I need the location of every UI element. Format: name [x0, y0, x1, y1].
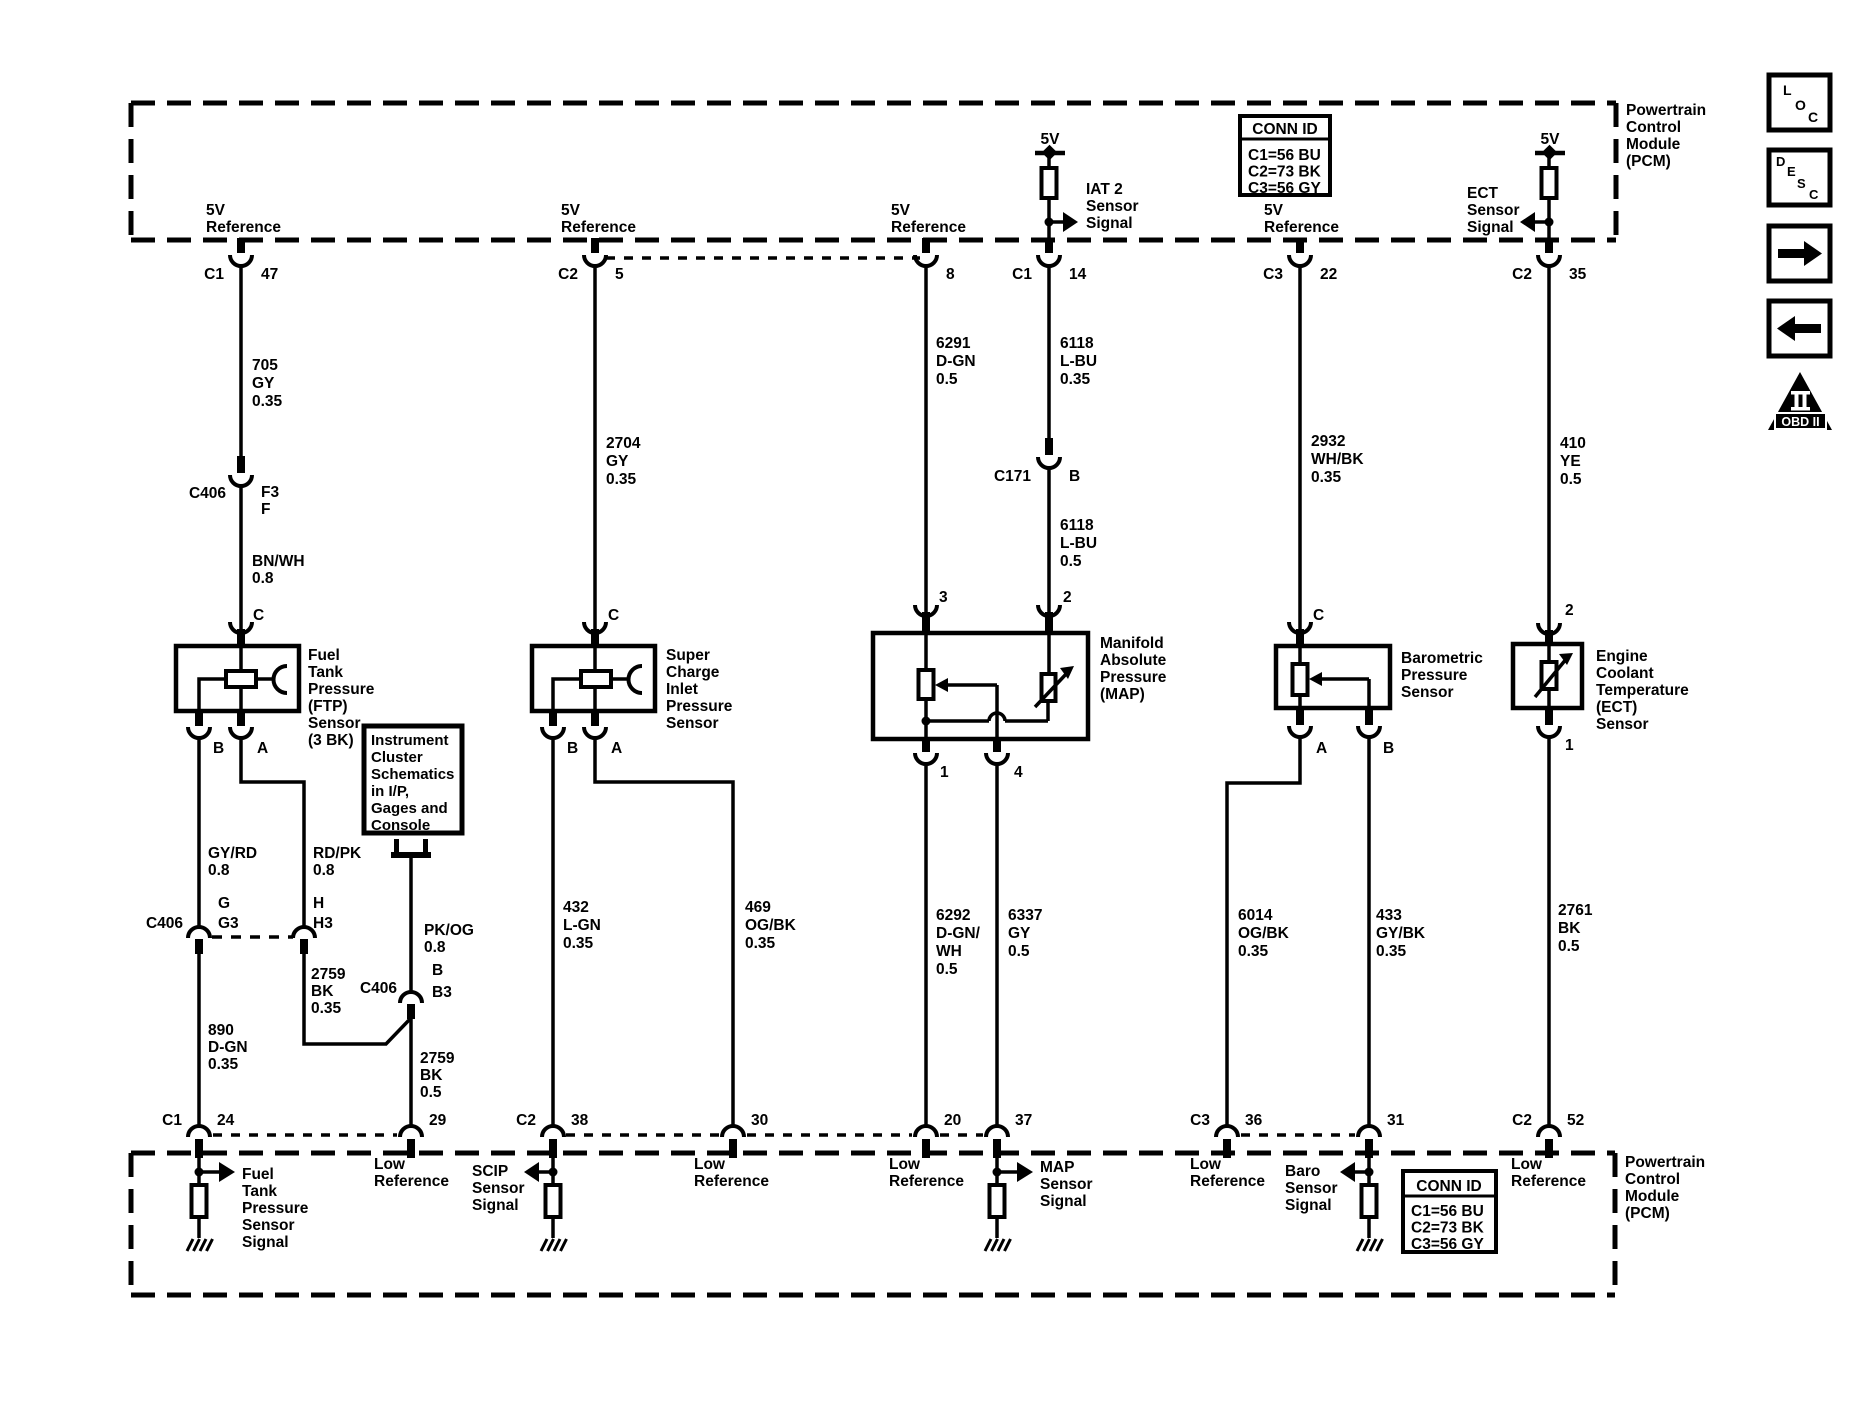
- svg-text:Gages and: Gages and: [371, 800, 448, 817]
- PCM pin C3 36: [1190, 1112, 1262, 1158]
- MAP thermistor: [1035, 633, 1074, 707]
- svg-text:Signal: Signal: [1285, 1197, 1332, 1214]
- svg-text:YE: YE: [1560, 453, 1581, 470]
- PCM pin C1 14: [1012, 238, 1086, 283]
- svg-text:0.35: 0.35: [252, 393, 283, 410]
- icon back arrow box: [1769, 301, 1830, 356]
- svg-text:30: 30: [751, 1112, 768, 1129]
- svg-text:6118: 6118: [1060, 517, 1094, 534]
- svg-text:L-BU: L-BU: [1060, 353, 1097, 370]
- svg-text:E: E: [1787, 164, 1796, 179]
- svg-text:G: G: [218, 895, 230, 912]
- svg-text:31: 31: [1387, 1112, 1405, 1129]
- icon forward arrow box: [1769, 226, 1830, 281]
- icon LOC box: [1769, 75, 1830, 130]
- label RD/PK 0.8: [313, 845, 362, 879]
- wire 6292: [924, 764, 928, 1126]
- svg-text:36: 36: [1245, 1112, 1263, 1129]
- svg-text:OG/BK: OG/BK: [745, 917, 797, 934]
- junction ECT: [1545, 218, 1554, 227]
- PCM label top right: [1626, 102, 1706, 170]
- connector C406 B B3: [360, 962, 452, 1019]
- svg-text:Sensor: Sensor: [472, 1180, 525, 1197]
- resistor pin31: [1362, 1185, 1377, 1217]
- label 6291 D-GN 0.5: [936, 335, 976, 388]
- svg-text:C: C: [1809, 187, 1819, 202]
- svg-text:0.5: 0.5: [936, 371, 958, 388]
- label 5V Reference col3: [891, 202, 966, 236]
- icon OBD II triangle: [1768, 372, 1832, 430]
- MAP wiper arrow: [935, 678, 997, 692]
- svg-text:0.35: 0.35: [745, 935, 776, 952]
- MAP pin4 wire: [995, 685, 999, 739]
- svg-text:2: 2: [1063, 589, 1072, 606]
- Baro pin C: [1289, 607, 1324, 648]
- svg-text:0.35: 0.35: [1311, 469, 1342, 486]
- dashed link 24-29: [213, 1133, 397, 1137]
- svg-text:0.5: 0.5: [420, 1084, 442, 1101]
- MAP junction dot: [922, 717, 931, 726]
- wire resistor to ground pin37: [995, 1217, 999, 1238]
- PCM pin 37: [986, 1112, 1032, 1158]
- svg-text:Sensor: Sensor: [1596, 716, 1649, 733]
- svg-text:705: 705: [252, 357, 278, 374]
- Baro pin A: [1289, 706, 1327, 757]
- connector C406 H H3: [293, 895, 333, 954]
- ECT sensor label: [1596, 648, 1689, 733]
- junction pin37: [993, 1168, 1002, 1177]
- label PK/OG 0.8: [424, 922, 474, 956]
- ECT sensor box: [1513, 644, 1582, 708]
- svg-text:L-BU: L-BU: [1060, 535, 1097, 552]
- svg-text:Low: Low: [1511, 1156, 1543, 1173]
- svg-text:2759: 2759: [311, 966, 346, 983]
- cluster connector hooks: [391, 839, 431, 858]
- svg-text:Reference: Reference: [374, 1173, 449, 1190]
- svg-text:Tank: Tank: [308, 664, 343, 681]
- svg-text:1: 1: [1565, 737, 1574, 754]
- wire resistor to ground pin24: [197, 1217, 201, 1238]
- label 6118 L-BU 0.35: [1060, 335, 1097, 388]
- label Low Reference 52: [1511, 1156, 1586, 1190]
- label 6337 GY 0.5: [1008, 907, 1042, 960]
- wire A to H3: [241, 738, 304, 928]
- PCM bottom dashed box: [131, 1153, 1615, 1295]
- svg-text:IAT 2: IAT 2: [1086, 181, 1123, 198]
- svg-text:0.5: 0.5: [1558, 938, 1580, 955]
- svg-text:C406: C406: [189, 485, 226, 502]
- svg-text:2761: 2761: [1558, 902, 1593, 919]
- label 432 L-GN 0.35: [563, 899, 601, 952]
- svg-text:0.8: 0.8: [313, 862, 335, 879]
- svg-text:Manifold: Manifold: [1100, 635, 1164, 652]
- PCM pin C2 52: [1512, 1112, 1584, 1158]
- Baro internal wires: [1300, 646, 1369, 708]
- svg-text:Low: Low: [1190, 1156, 1222, 1173]
- SC pin A: [584, 709, 622, 757]
- wire into PCM pin38: [551, 1158, 555, 1185]
- svg-text:Powertrain: Powertrain: [1625, 1154, 1705, 1171]
- svg-text:C: C: [253, 607, 264, 624]
- resistor pin24: [192, 1185, 207, 1217]
- svg-text:D: D: [1776, 154, 1785, 169]
- svg-text:OBD II: OBD II: [1781, 415, 1819, 429]
- wire BN/WH to FTP C: [239, 486, 243, 631]
- junction IAT2: [1045, 218, 1054, 227]
- dashed link 20-37: [940, 1133, 983, 1137]
- svg-text:Low: Low: [889, 1156, 921, 1173]
- svg-text:C1: C1: [162, 1112, 182, 1129]
- svg-text:Pressure: Pressure: [666, 698, 733, 715]
- svg-text:B: B: [1383, 740, 1394, 757]
- svg-text:Low: Low: [694, 1156, 726, 1173]
- PCM pin C2 38: [516, 1112, 588, 1158]
- MAP sensor box: [873, 633, 1088, 739]
- svg-text:Reference: Reference: [1264, 219, 1339, 236]
- svg-text:C: C: [1313, 607, 1324, 624]
- label 6292 D-GN/ WH 0.5: [936, 907, 981, 978]
- resistor pin37: [990, 1185, 1005, 1217]
- svg-text:B: B: [567, 740, 578, 757]
- wire 6337: [995, 764, 999, 1126]
- Baro internal resistor: [1293, 664, 1308, 695]
- svg-text:0.35: 0.35: [606, 471, 637, 488]
- SC pin B: [542, 709, 578, 757]
- connector C171 B: [994, 438, 1080, 485]
- label 2759 BK 0.35: [311, 966, 346, 1017]
- label 6118 L-BU 0.5: [1060, 517, 1097, 570]
- svg-text:6014: 6014: [1238, 907, 1273, 924]
- svg-text:35: 35: [1569, 266, 1587, 283]
- svg-text:0.35: 0.35: [311, 1000, 342, 1017]
- svg-text:Pressure: Pressure: [242, 1200, 309, 1217]
- svg-text:H: H: [313, 895, 324, 912]
- junction pin31: [1365, 1168, 1374, 1177]
- svg-text:Sensor: Sensor: [1086, 198, 1139, 215]
- Baro sensor box: [1276, 646, 1390, 708]
- PCM pin C2 35: [1512, 238, 1586, 283]
- svg-text:C406: C406: [146, 915, 183, 932]
- label 410 YE 0.5: [1560, 435, 1586, 488]
- svg-text:BK: BK: [1558, 920, 1581, 937]
- ground pin24: [187, 1239, 213, 1251]
- MAP sensor label: [1100, 635, 1167, 703]
- connector C406 F3: [189, 456, 280, 518]
- icon DESC box: [1769, 150, 1830, 205]
- svg-text:890: 890: [208, 1022, 234, 1039]
- Instrument Cluster box: [364, 726, 462, 834]
- label Low Reference 20: [889, 1156, 964, 1190]
- svg-text:Signal: Signal: [1040, 1193, 1087, 1210]
- dashed link C2-5 to 8: [606, 256, 920, 260]
- 5V supply ECT: [1535, 131, 1565, 168]
- svg-text:Charge: Charge: [666, 664, 720, 681]
- FTP pin C: [230, 607, 264, 648]
- svg-text:C1: C1: [1012, 266, 1032, 283]
- arrow SCIP Sensor Signal: [524, 1162, 553, 1182]
- PCM pin 29: [400, 1112, 447, 1158]
- arrow ECT Sensor Signal: [1520, 212, 1549, 232]
- wire FTP B down GY/RD: [197, 738, 201, 928]
- wire resistor to ground pin38: [551, 1217, 555, 1238]
- svg-text:G3: G3: [218, 915, 239, 932]
- svg-text:Pressure: Pressure: [308, 681, 375, 698]
- svg-text:Control: Control: [1625, 1171, 1680, 1188]
- wire 432 L-GN: [551, 738, 555, 1126]
- svg-text:38: 38: [571, 1112, 589, 1129]
- wire 6118 L-BU 0.35: [1047, 266, 1051, 440]
- wire 469 OG/BK: [595, 738, 733, 1126]
- Super Charge sensor box: [532, 646, 655, 711]
- svg-text:Reference: Reference: [891, 219, 966, 236]
- svg-text:F: F: [261, 501, 270, 518]
- svg-text:(ECT): (ECT): [1596, 699, 1637, 716]
- wire into PCM pin24: [197, 1158, 201, 1185]
- svg-text:Tank: Tank: [242, 1183, 277, 1200]
- svg-text:Baro: Baro: [1285, 1163, 1320, 1180]
- svg-text:GY/RD: GY/RD: [208, 845, 257, 862]
- svg-text:Signal: Signal: [1086, 215, 1133, 232]
- PCM pin C1 24: [162, 1112, 234, 1158]
- dashed link 38-30: [566, 1133, 719, 1137]
- svg-text:ECT: ECT: [1467, 185, 1499, 202]
- label 2759 BK 0.5: [420, 1050, 455, 1101]
- svg-text:0.35: 0.35: [1376, 943, 1407, 960]
- label IAT 2 Sensor Signal: [1086, 181, 1139, 232]
- svg-text:S: S: [1797, 176, 1806, 191]
- svg-text:24: 24: [217, 1112, 235, 1129]
- svg-text:Module: Module: [1626, 136, 1681, 153]
- PCM label bottom right: [1625, 1154, 1705, 1222]
- wire 6014 OG/BK: [1227, 737, 1300, 1126]
- CONN ID box bottom: [1403, 1171, 1496, 1253]
- ECT thermistor: [1535, 644, 1573, 708]
- MAP resistor wires: [924, 633, 928, 739]
- svg-text:Barometric: Barometric: [1401, 650, 1483, 667]
- svg-text:37: 37: [1015, 1112, 1032, 1129]
- arrow MAP Sensor Signal: [997, 1162, 1033, 1182]
- svg-text:A: A: [257, 740, 268, 757]
- svg-text:5V: 5V: [1541, 131, 1561, 148]
- svg-text:0.8: 0.8: [252, 570, 274, 587]
- svg-text:WH: WH: [936, 943, 962, 960]
- svg-text:Sensor: Sensor: [666, 715, 719, 732]
- svg-text:5V: 5V: [891, 202, 911, 219]
- svg-text:Console: Console: [371, 817, 430, 834]
- svg-text:C2: C2: [1512, 1112, 1532, 1129]
- FTP pin B: [188, 709, 224, 757]
- label BN/WH 0.8: [252, 553, 305, 587]
- svg-text:4: 4: [1014, 764, 1023, 781]
- svg-text:Reference: Reference: [561, 219, 636, 236]
- svg-text:C171: C171: [994, 468, 1031, 485]
- Baro sensor label: [1401, 650, 1483, 701]
- label Baro Sensor Signal: [1285, 1163, 1338, 1214]
- SC sensor label: [666, 647, 733, 732]
- svg-text:GY: GY: [1008, 925, 1031, 942]
- svg-text:A: A: [1316, 740, 1327, 757]
- dashed link 30-20: [747, 1133, 912, 1137]
- resistor pin38: [546, 1185, 561, 1217]
- ground pin38: [541, 1239, 567, 1251]
- wire resistor to ground pin31: [1367, 1217, 1371, 1238]
- label 890 D-GN 0.35: [208, 1022, 248, 1073]
- svg-text:0.35: 0.35: [208, 1056, 239, 1073]
- svg-text:Instrument: Instrument: [371, 732, 449, 749]
- svg-text:Pressure: Pressure: [1401, 667, 1468, 684]
- svg-text:D-GN: D-GN: [936, 353, 976, 370]
- ground pin31: [1357, 1239, 1383, 1251]
- ECT pin 1: [1538, 706, 1574, 754]
- svg-text:C1=56 BU: C1=56 BU: [1248, 147, 1321, 164]
- label GY/RD 0.8: [208, 845, 257, 879]
- FTP internal wires: [199, 646, 273, 711]
- svg-text:Inlet: Inlet: [666, 681, 698, 698]
- SC internal wires: [553, 646, 628, 711]
- svg-text:0.35: 0.35: [563, 935, 594, 952]
- label Low Reference 36: [1190, 1156, 1265, 1190]
- FTP internal resistor: [226, 671, 256, 687]
- svg-text:C3=56 GY: C3=56 GY: [1248, 180, 1321, 197]
- svg-text:Sensor: Sensor: [1285, 1180, 1338, 1197]
- svg-text:in I/P,: in I/P,: [371, 783, 409, 800]
- Baro pin B: [1358, 706, 1394, 757]
- svg-text:Pressure: Pressure: [1100, 669, 1167, 686]
- svg-text:6337: 6337: [1008, 907, 1042, 924]
- junction pin24: [195, 1168, 204, 1177]
- svg-text:Reference: Reference: [694, 1173, 769, 1190]
- FTP transducer arc: [274, 666, 288, 693]
- svg-text:(PCM): (PCM): [1625, 1205, 1670, 1222]
- svg-text:Signal: Signal: [472, 1197, 519, 1214]
- svg-text:433: 433: [1376, 907, 1402, 924]
- svg-text:Fuel: Fuel: [242, 1166, 274, 1183]
- 5V supply IAT2: [1035, 131, 1065, 168]
- svg-text:0.5: 0.5: [1060, 553, 1082, 570]
- FTP pin A: [230, 709, 268, 757]
- wire into PCM pin31: [1367, 1158, 1371, 1185]
- svg-text:H3: H3: [313, 915, 333, 932]
- svg-text:Sensor: Sensor: [1040, 1176, 1093, 1193]
- svg-text:C406: C406: [360, 980, 397, 997]
- svg-text:B: B: [213, 740, 224, 757]
- svg-text:22: 22: [1320, 266, 1337, 283]
- svg-text:O: O: [1795, 97, 1806, 113]
- PCM pin 20: [915, 1112, 961, 1158]
- MAP pin 3: [915, 589, 948, 635]
- svg-text:Control: Control: [1626, 119, 1681, 136]
- svg-text:C3=56 GY: C3=56 GY: [1411, 1236, 1484, 1253]
- label 433 GY/BK 0.35: [1376, 907, 1426, 960]
- PCM pin C2 5: [558, 238, 624, 283]
- svg-text:Cluster: Cluster: [371, 749, 423, 766]
- arrow IAT2 Sensor Signal: [1049, 212, 1078, 232]
- PCM pin C1 47: [204, 238, 278, 283]
- wire 5V ref to C406-F3: [239, 266, 243, 460]
- svg-text:C2=73 BK: C2=73 BK: [1248, 164, 1322, 181]
- svg-text:410: 410: [1560, 435, 1586, 452]
- wire 2759 BK 0.35 from H3: [304, 953, 411, 1044]
- svg-text:0.35: 0.35: [1060, 371, 1091, 388]
- ECT pin 2: [1538, 602, 1574, 646]
- wire ECT resistor to pin: [1547, 198, 1551, 240]
- IAT2 resistor: [1042, 168, 1057, 198]
- PCM pin 31: [1358, 1112, 1405, 1158]
- wire 410 YE: [1547, 266, 1551, 632]
- wire into PCM pin37: [995, 1158, 999, 1185]
- svg-text:5V: 5V: [561, 202, 581, 219]
- connector C406 G G3: [146, 895, 239, 954]
- svg-text:SCIP: SCIP: [472, 1163, 508, 1180]
- svg-text:Super: Super: [666, 647, 710, 664]
- PCM pin 30: [722, 1112, 768, 1158]
- ECT resistor top: [1542, 168, 1557, 198]
- svg-text:BK: BK: [311, 983, 334, 1000]
- label 5V Reference col2: [561, 202, 636, 236]
- svg-text:Temperature: Temperature: [1596, 682, 1689, 699]
- svg-text:2704: 2704: [606, 435, 641, 452]
- svg-text:C2: C2: [1512, 266, 1532, 283]
- wire 2704 GY: [593, 266, 597, 631]
- svg-text:Module: Module: [1625, 1188, 1680, 1205]
- svg-text:D-GN: D-GN: [208, 1039, 248, 1056]
- svg-text:GY: GY: [252, 375, 275, 392]
- arrow Baro Sensor Signal: [1340, 1162, 1369, 1182]
- svg-text:Sensor: Sensor: [242, 1217, 295, 1234]
- SC internal resistor: [581, 671, 611, 687]
- svg-text:Coolant: Coolant: [1596, 665, 1654, 682]
- label 6014 OG/BK 0.35: [1238, 907, 1290, 960]
- svg-text:Reference: Reference: [1190, 1173, 1265, 1190]
- svg-text:D-GN/: D-GN/: [936, 925, 981, 942]
- label ECT Sensor Signal: [1467, 185, 1520, 236]
- svg-text:B: B: [1069, 468, 1080, 485]
- svg-text:6292: 6292: [936, 907, 970, 924]
- svg-text:469: 469: [745, 899, 771, 916]
- label 2704 GY 0.35: [606, 435, 641, 488]
- svg-text:0.5: 0.5: [1560, 471, 1582, 488]
- svg-text:Reference: Reference: [1511, 1173, 1586, 1190]
- svg-text:Sensor: Sensor: [1467, 202, 1520, 219]
- svg-text:14: 14: [1069, 266, 1087, 283]
- svg-text:(3 BK): (3 BK): [308, 732, 354, 749]
- arrow Fuel Tank Pressure Sensor Signal: [199, 1162, 235, 1182]
- svg-text:Low: Low: [374, 1156, 406, 1173]
- MAP pin 2: [1038, 589, 1072, 635]
- wire 2761 BK: [1547, 737, 1551, 1126]
- label MAP Sensor Signal: [1040, 1159, 1093, 1210]
- svg-text:5V: 5V: [206, 202, 226, 219]
- svg-text:3: 3: [939, 589, 948, 606]
- svg-text:8: 8: [946, 266, 955, 283]
- svg-text:0.5: 0.5: [936, 961, 958, 978]
- label 469 OG/BK 0.35: [745, 899, 797, 952]
- svg-text:B: B: [432, 962, 443, 979]
- FTP sensor box: [176, 646, 299, 711]
- wire 6118 L-BU 0.5: [1047, 468, 1051, 614]
- Baro wiper arrow: [1309, 672, 1369, 686]
- svg-text:5: 5: [615, 266, 624, 283]
- svg-text:L-GN: L-GN: [563, 917, 601, 934]
- svg-text:0.8: 0.8: [424, 939, 446, 956]
- wire 433 GY/BK: [1367, 737, 1371, 1126]
- svg-text:F3: F3: [261, 484, 279, 501]
- svg-text:C2: C2: [558, 266, 578, 283]
- dashed link 36-31: [1241, 1133, 1355, 1137]
- svg-text:5V: 5V: [1264, 202, 1284, 219]
- svg-text:C1: C1: [204, 266, 224, 283]
- PCM pin 8: [915, 238, 955, 283]
